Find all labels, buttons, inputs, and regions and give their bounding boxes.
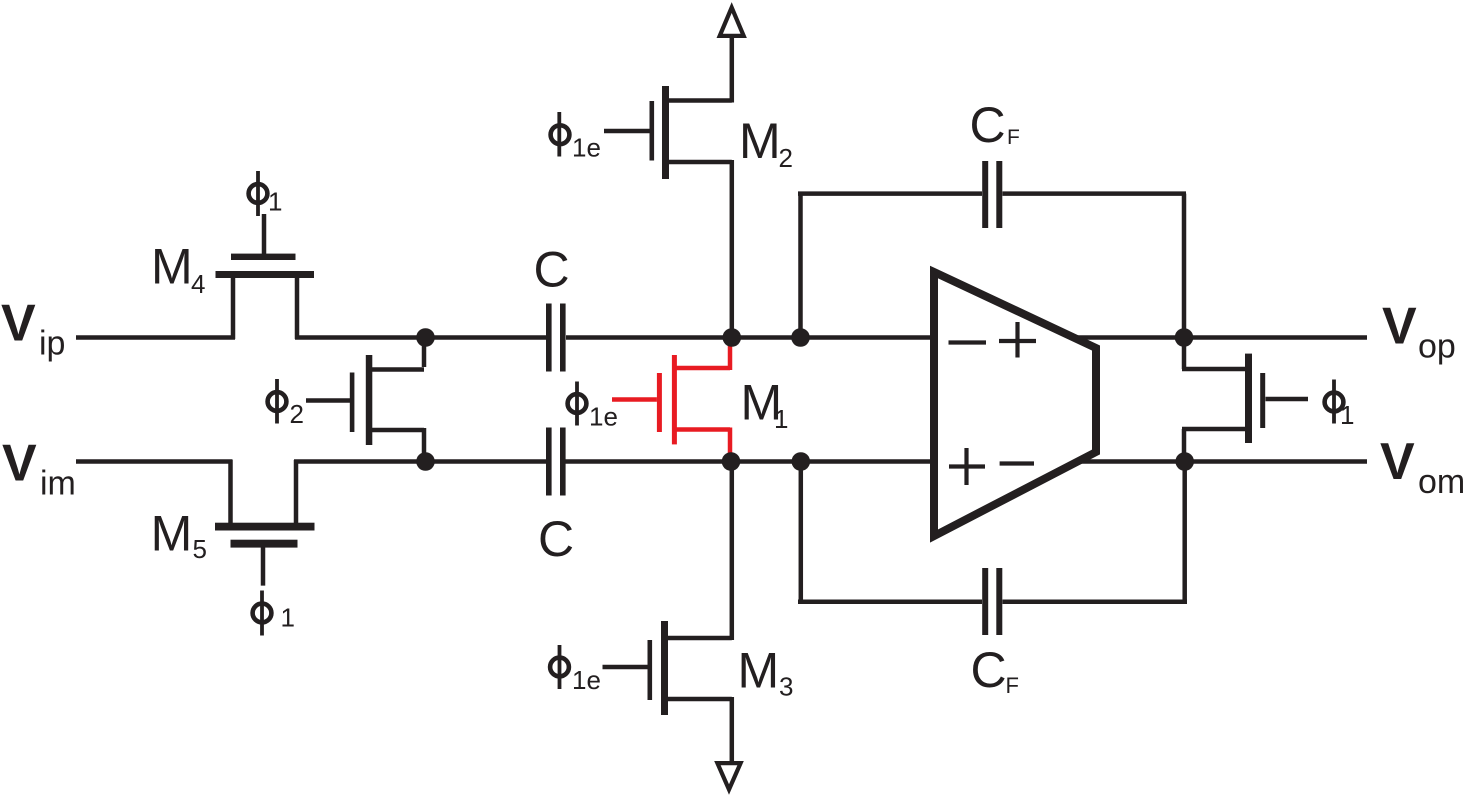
svg-text:ip: ip bbox=[39, 325, 65, 363]
svg-text:im: im bbox=[40, 465, 76, 503]
svg-text:C: C bbox=[971, 642, 1007, 698]
svg-text:F: F bbox=[1007, 126, 1020, 149]
svg-text:V: V bbox=[1380, 433, 1415, 491]
svg-text:M: M bbox=[738, 643, 780, 699]
svg-text:1e: 1e bbox=[572, 665, 601, 695]
svg-text:2: 2 bbox=[779, 143, 793, 173]
svg-text:C: C bbox=[538, 511, 574, 567]
svg-text:1: 1 bbox=[1340, 400, 1354, 430]
svg-text:5: 5 bbox=[193, 534, 207, 564]
svg-text:op: op bbox=[1418, 328, 1456, 366]
svg-text:om: om bbox=[1418, 463, 1464, 501]
svg-text:V: V bbox=[1382, 298, 1417, 356]
svg-text:C: C bbox=[534, 242, 570, 298]
svg-text:1: 1 bbox=[268, 187, 282, 217]
svg-text:1e: 1e bbox=[589, 402, 618, 432]
svg-text:V: V bbox=[1, 295, 36, 353]
svg-text:1: 1 bbox=[281, 603, 295, 633]
svg-text:1e: 1e bbox=[572, 133, 601, 163]
svg-text:M: M bbox=[151, 506, 193, 562]
svg-text:C: C bbox=[970, 97, 1006, 153]
svg-text:1: 1 bbox=[774, 404, 788, 434]
svg-text:4: 4 bbox=[191, 269, 205, 299]
svg-text:3: 3 bbox=[779, 672, 793, 702]
svg-text:F: F bbox=[1006, 673, 1019, 698]
svg-text:2: 2 bbox=[290, 399, 304, 429]
svg-text:M: M bbox=[151, 239, 193, 295]
svg-text:M: M bbox=[739, 113, 781, 169]
svg-text:V: V bbox=[2, 435, 37, 493]
